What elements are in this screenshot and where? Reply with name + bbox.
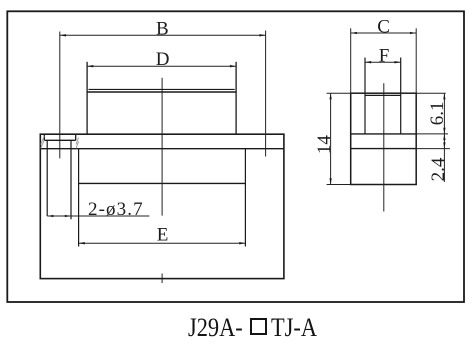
svg-text:6.1: 6.1 xyxy=(427,102,448,126)
svg-text:2-ø3.7: 2-ø3.7 xyxy=(88,199,144,220)
svg-text:D: D xyxy=(156,49,170,70)
svg-text:E: E xyxy=(157,225,169,246)
svg-text:B: B xyxy=(156,19,169,40)
svg-text:F: F xyxy=(379,46,390,67)
svg-text:C: C xyxy=(377,16,390,37)
svg-text:14: 14 xyxy=(314,135,335,155)
svg-text:2.4: 2.4 xyxy=(428,157,449,181)
